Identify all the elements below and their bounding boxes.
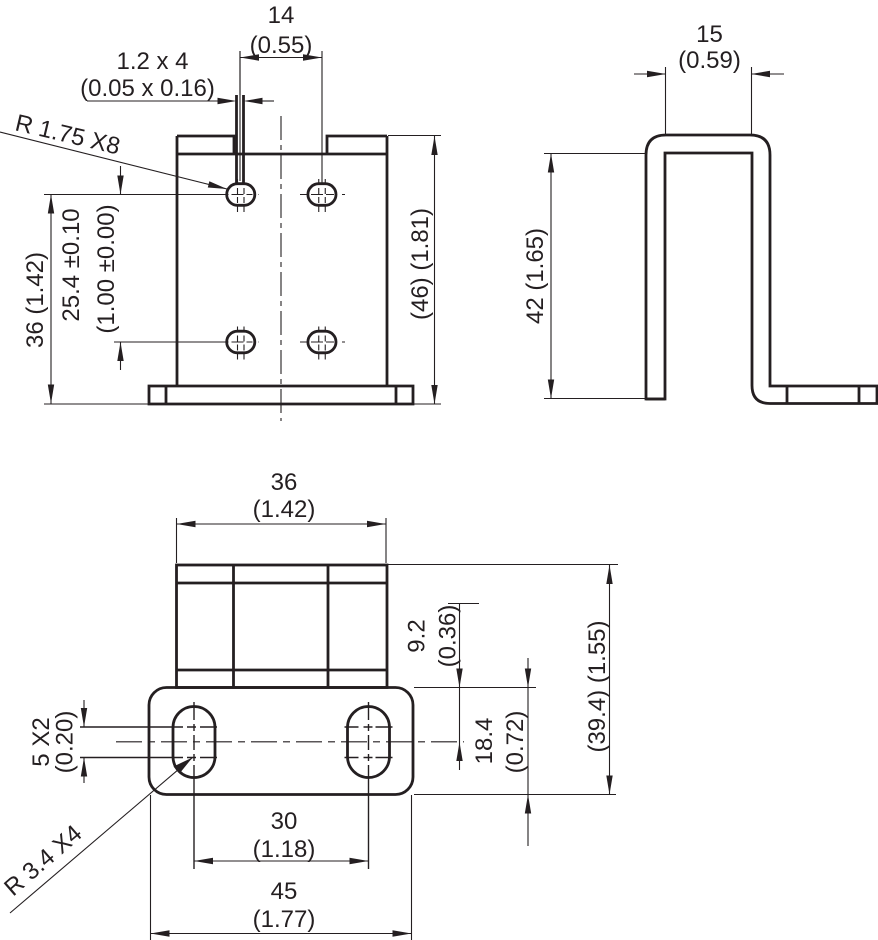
bottom flange: [149, 386, 413, 404]
svg-text:(0.36): (0.36): [435, 605, 462, 668]
36 ext right: [385, 518, 387, 563]
svg-text:(1.77): (1.77): [253, 906, 316, 933]
side profile outline: [646, 135, 877, 404]
foot tick left: [786, 386, 789, 404]
svg-text:(0.55): (0.55): [250, 32, 313, 59]
svg-text:(0.05 x 0.16): (0.05 x 0.16): [80, 75, 215, 102]
svg-text:30: 30: [271, 808, 298, 835]
right body edge: [386, 136, 389, 386]
left body edge: [176, 136, 179, 386]
36 ext left: [176, 518, 178, 563]
svg-text:1.2 x 4: 1.2 x 4: [116, 48, 188, 75]
left slot vertical center line / 30-dim extension: [193, 702, 195, 869]
slot center lines: [80, 702, 464, 869]
svg-text:(1.18): (1.18): [253, 836, 316, 863]
hole top-right: [300, 179, 347, 212]
svg-text:(1.42): (1.42): [253, 496, 316, 523]
svg-text:45: 45: [271, 878, 298, 905]
slot lines (1.2x4 slot): [235, 95, 238, 183]
svg-text:36 (1.42): 36 (1.42): [22, 252, 49, 348]
dimension 42 (1.65): [522, 154, 645, 399]
right tab top: [327, 136, 387, 154]
dimension 36 (1.42) left: [22, 195, 226, 404]
bend line across: [177, 153, 387, 156]
svg-text:(0.72): (0.72): [502, 711, 529, 774]
svg-text:(1.00 ±0.00): (1.00 ±0.00): [93, 204, 120, 333]
leader R 1.75 X8: [0, 110, 228, 193]
bottom view body: [149, 565, 413, 795]
svg-text:14: 14: [268, 2, 295, 29]
right slot cross lines: [345, 726, 393, 728]
dimension (46) (1.81) right: [44, 136, 441, 405]
slot center extension line: [239, 51, 241, 181]
center line vertical: [280, 116, 282, 421]
left slot cross lines: [80, 726, 217, 728]
svg-text:(0.59): (0.59): [678, 47, 741, 74]
45 ext right: [411, 795, 413, 940]
right slot vertical center line / 30-dim extension: [368, 702, 370, 869]
plate bottom ext right: [414, 794, 616, 796]
svg-text:15: 15: [696, 21, 723, 48]
svg-text:(39.4) (1.55): (39.4) (1.55): [584, 620, 611, 752]
svg-text:(46) (1.81): (46) (1.81): [407, 208, 434, 320]
dimension 14 (0.55): [240, 2, 322, 183]
hole bottom-left: [223, 327, 260, 360]
front view body outline: [149, 136, 413, 404]
dimension 30 (1.18): [194, 808, 369, 864]
dimension 5 X2 (0.20): [28, 700, 87, 783]
flange tick left: [165, 386, 168, 404]
top ext for 39.4: [388, 564, 618, 566]
extension lines: [151, 518, 619, 940]
svg-text:9.2: 9.2: [404, 619, 431, 652]
hole bottom-right: [300, 327, 347, 360]
svg-text:18.4: 18.4: [471, 718, 498, 765]
dimension 1.2 x 4 (0.05 x 0.16): [80, 48, 274, 104]
45 ext left: [150, 795, 152, 940]
flange tick right: [395, 386, 398, 404]
foot tick right: [858, 386, 861, 404]
dimension 25.4 ±0.10 (1.00 ±0.00): [58, 166, 226, 370]
plate top ext right: [414, 687, 536, 689]
main horizontal center line: [116, 741, 464, 743]
left leg bottom cap: [646, 398, 665, 401]
svg-text:(0.20): (0.20): [52, 711, 79, 774]
svg-text:25.4 ±0.10: 25.4 ±0.10: [58, 208, 85, 321]
svg-text:42 (1.65): 42 (1.65): [522, 228, 549, 324]
slot right: [348, 707, 390, 778]
dimension 45 (1.77): [151, 878, 412, 937]
dimension 15 (0.59): [634, 21, 784, 135]
dimension 18.4 (0.72): [471, 658, 531, 846]
slot left: [173, 707, 215, 778]
dimension (39.4) (1.55): [584, 565, 613, 795]
hole top-left: [223, 179, 260, 212]
leader R 3.4 X4: [0, 758, 192, 914]
left tab top: [177, 136, 234, 154]
dimension 36 (1.42) bottom view: [177, 469, 387, 527]
dimension 9.2 (0.36): [404, 604, 480, 771]
svg-text:36: 36: [271, 469, 298, 496]
